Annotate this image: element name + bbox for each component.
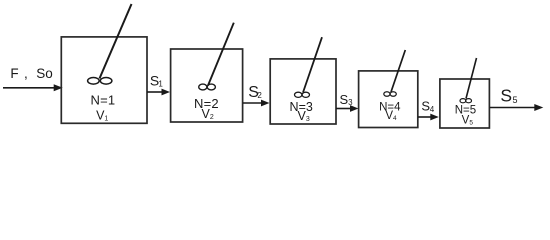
svg-text:So: So <box>36 66 53 81</box>
tank 5 stirrer shaft <box>466 58 477 99</box>
tank 2 impeller <box>199 84 216 90</box>
tank 4 impeller <box>384 92 397 97</box>
tank 3 box <box>270 59 336 124</box>
tank 2 box <box>171 49 243 122</box>
tank 4 box <box>359 71 418 128</box>
tank 5 box <box>440 79 490 128</box>
arrow S5 <box>490 104 544 111</box>
arrow S3 <box>336 105 359 112</box>
svg-text:S: S <box>500 86 512 106</box>
svg-text:4: 4 <box>430 105 435 114</box>
tank 3 impeller <box>295 92 310 97</box>
arrow S1 <box>147 89 170 96</box>
tank 1 box <box>61 37 147 123</box>
arrow S4 <box>418 114 439 121</box>
tank 3 stirrer shaft <box>303 37 322 92</box>
tank 4 stirrer shaft <box>391 50 405 92</box>
label F , So <box>10 66 52 81</box>
tank 1 impeller <box>88 78 112 85</box>
arrow S2 <box>243 100 270 107</box>
tank 5 impeller <box>460 99 472 103</box>
svg-text:F: F <box>10 66 18 81</box>
svg-text:N=1: N=1 <box>90 93 115 108</box>
svg-text:5: 5 <box>513 95 518 105</box>
tank 2 stirrer shaft <box>208 23 234 86</box>
svg-text:2: 2 <box>257 91 262 100</box>
svg-text:,: , <box>24 66 28 81</box>
tank 1 stirrer shaft <box>100 4 132 79</box>
feed arrow <box>3 84 63 91</box>
svg-text:1: 1 <box>158 79 163 88</box>
